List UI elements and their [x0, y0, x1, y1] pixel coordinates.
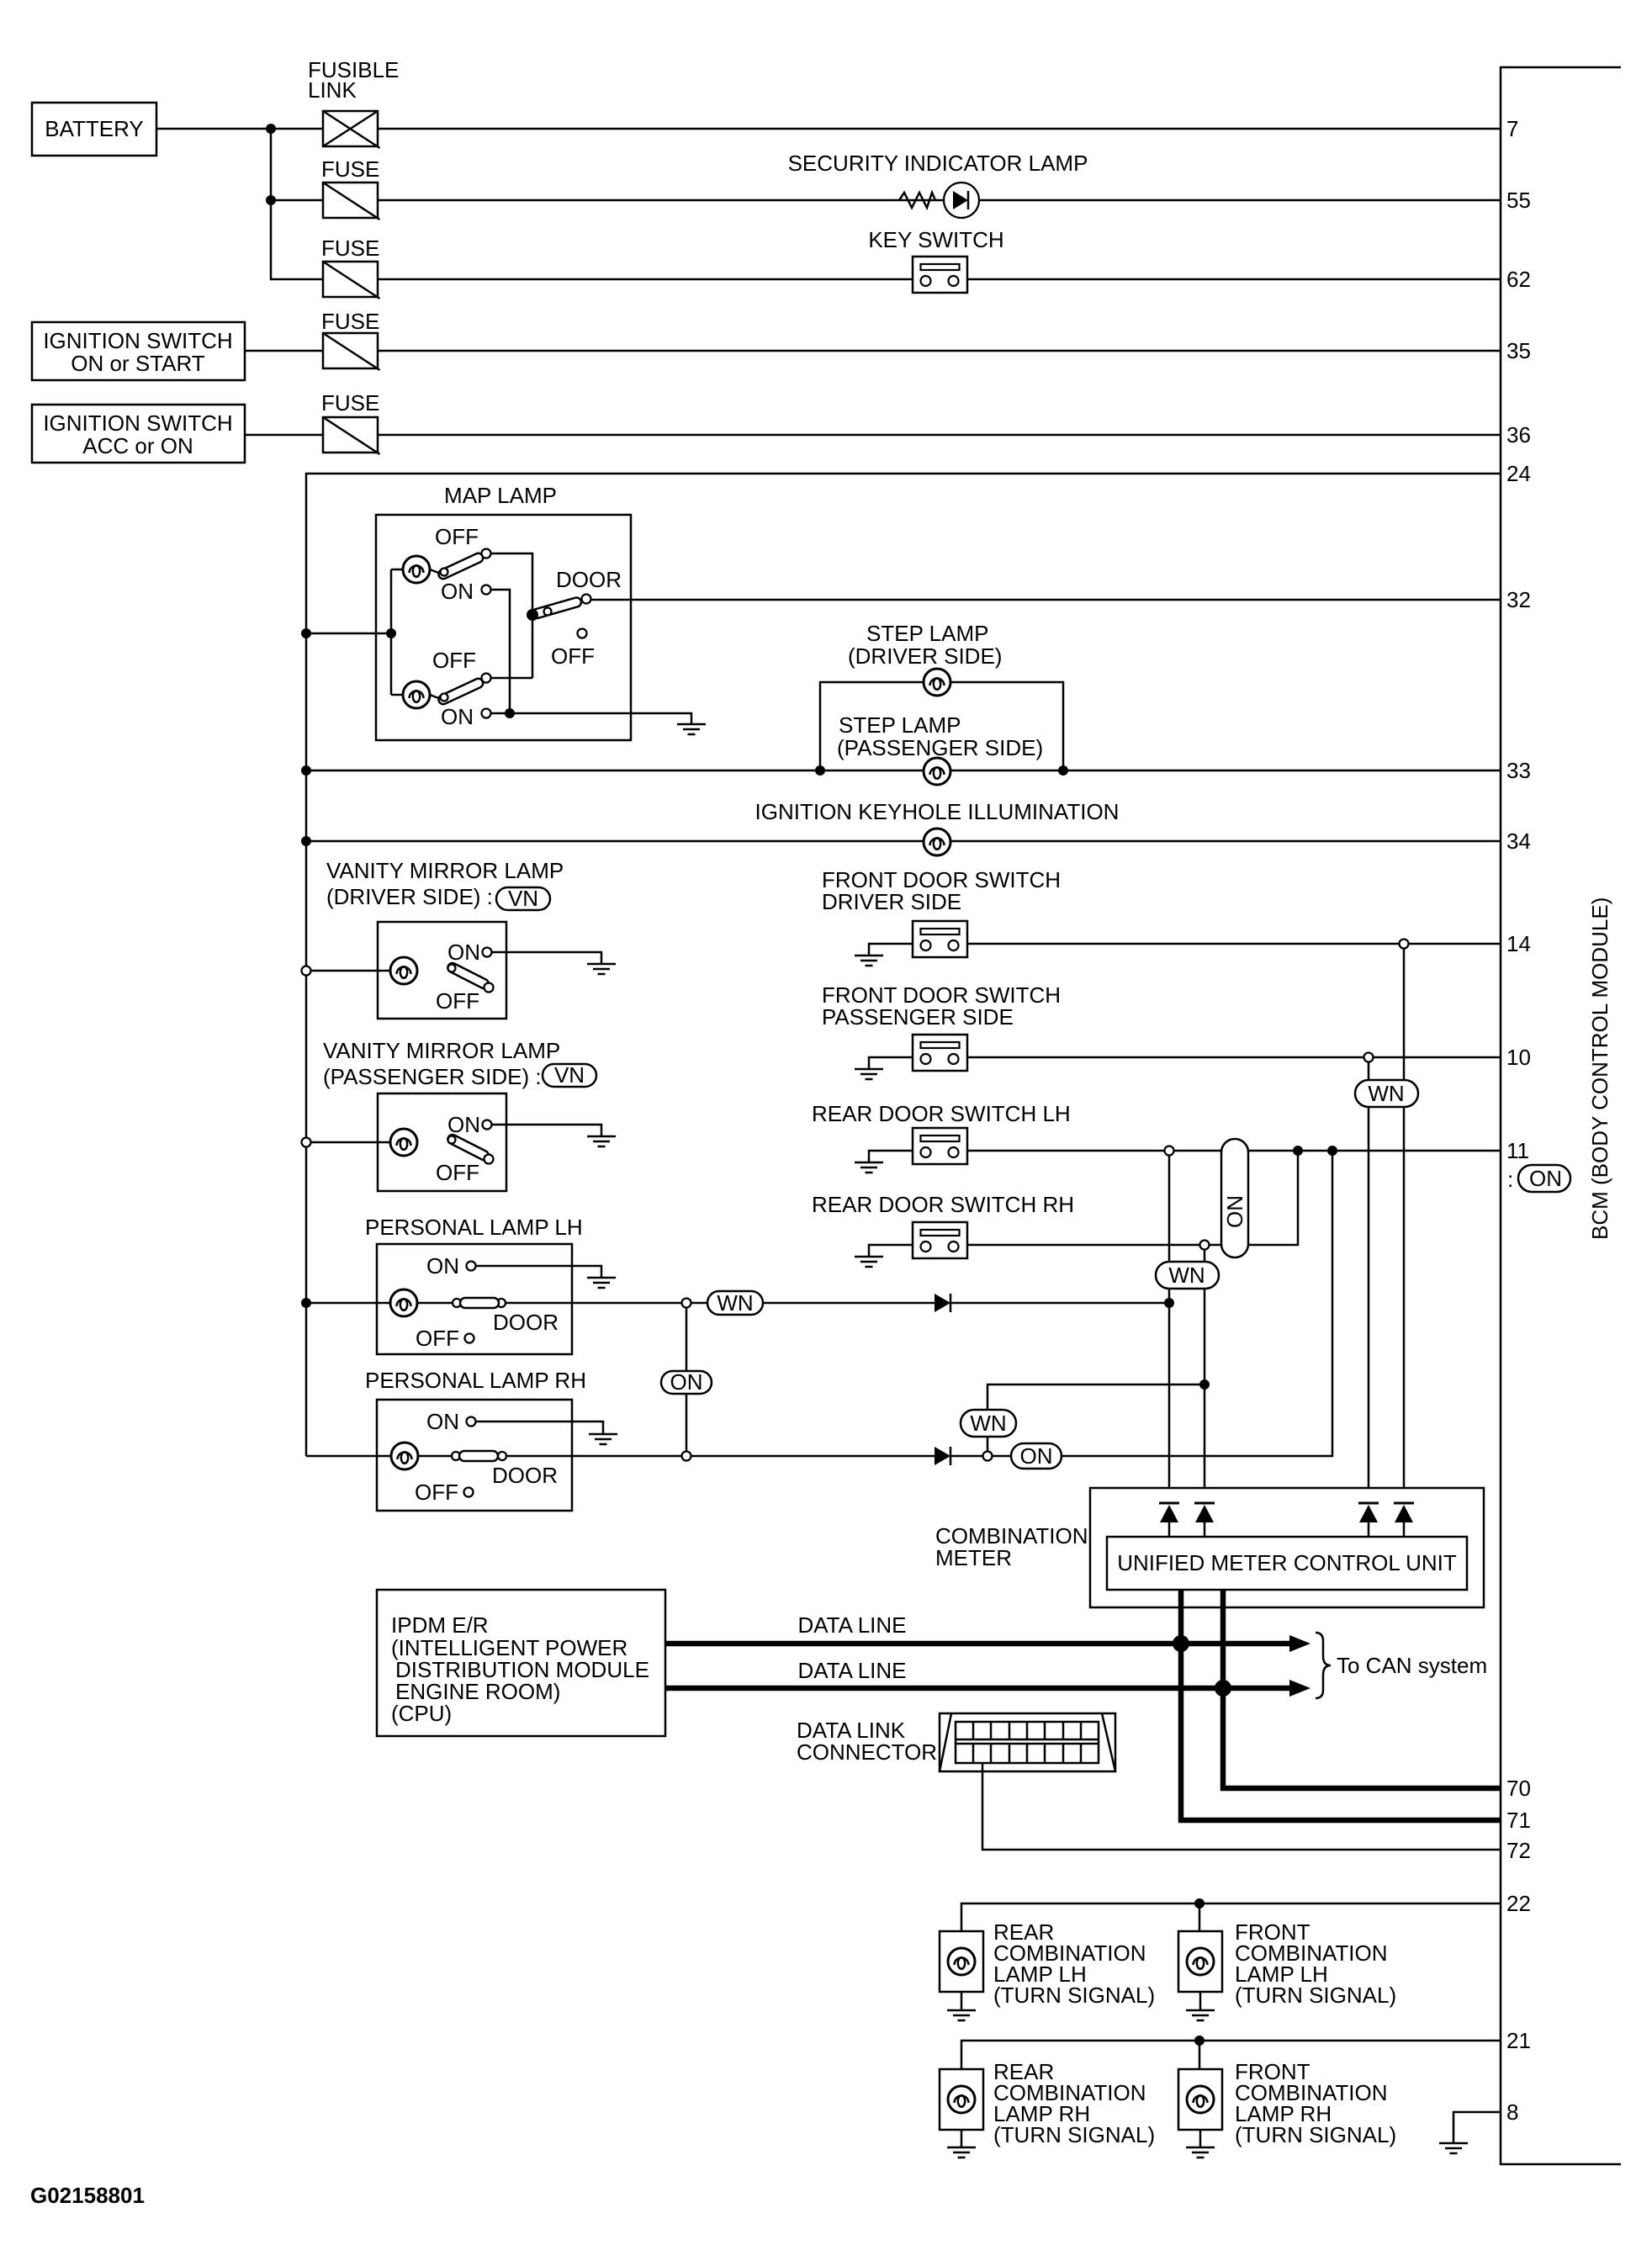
svg-text:(DRIVER SIDE) :: (DRIVER SIDE) : — [326, 884, 493, 909]
fuse F5 label — [321, 390, 379, 416]
ignition switch ACC or ON box — [32, 405, 245, 463]
svg-text:CONNECTOR: CONNECTOR — [797, 1739, 937, 1765]
diode in meter riser 4 — [1394, 1503, 1414, 1537]
pin 10 — [1506, 1045, 1531, 1070]
svg-text:REAR DOOR SWITCH RH: REAR DOOR SWITCH RH — [812, 1192, 1074, 1217]
front door switch driver side — [913, 921, 967, 957]
ignition keyhole illumination bulb — [924, 829, 950, 855]
front door switch passenger side — [913, 1035, 967, 1071]
wire rear lamp RH to ground — [961, 2130, 963, 2147]
BCM (Body Control Module) box — [1501, 67, 1621, 2164]
security indicator lamp label — [788, 151, 1088, 176]
wire pin 34 — [306, 840, 1501, 843]
pin 35 — [1506, 338, 1531, 363]
node CAN junction data line 2 — [1215, 1680, 1231, 1697]
svg-text:7: 7 — [1506, 116, 1518, 141]
vanity mirror lamp passenger box — [378, 1093, 506, 1191]
personal RH OFF contact — [415, 1480, 474, 1505]
node map ground junction — [505, 708, 515, 718]
svg-text:21: 21 — [1506, 2028, 1531, 2053]
personal RH ON contact — [426, 1409, 476, 1434]
svg-text:SECURITY INDICATOR LAMP: SECURITY INDICATOR LAMP — [788, 151, 1088, 176]
harness connector WN on meter risers — [1355, 1080, 1418, 1107]
ground of personal lamp LH — [587, 1278, 616, 1288]
pin 11 — [1506, 1138, 1529, 1163]
svg-text:ON: ON — [447, 1112, 480, 1137]
svg-text:ON: ON — [426, 1253, 459, 1279]
battery box — [32, 103, 156, 156]
wire rear door switch RH to pin 11 wire — [967, 1151, 1298, 1245]
pin 70 — [1506, 1776, 1531, 1801]
map door switch contact — [556, 567, 622, 604]
wire personal LH to diode — [572, 1302, 935, 1305]
svg-text:IGNITION SWITCH: IGNITION SWITCH — [43, 328, 232, 353]
svg-text:METER: METER — [935, 1545, 1012, 1570]
step lamp driver side bulb — [924, 669, 950, 696]
svg-text:ON: ON — [441, 579, 474, 604]
svg-text:OFF: OFF — [436, 988, 479, 1014]
node CAN junction data line 1 — [1173, 1635, 1189, 1652]
node bus to map lamp — [301, 628, 311, 638]
svg-text:70: 70 — [1506, 1776, 1531, 1801]
svg-text:KEY SWITCH: KEY SWITCH — [868, 227, 1003, 252]
node personal RH diode output — [983, 1452, 993, 1461]
ground of vanity driver lamp — [587, 964, 616, 974]
svg-text:IGNITION SWITCH: IGNITION SWITCH — [43, 410, 232, 436]
svg-text:OFF: OFF — [415, 1480, 458, 1505]
ground of personal lamp RH — [589, 1434, 617, 1444]
personal RH door contact slider — [418, 1451, 572, 1461]
ground of map lamp — [677, 724, 706, 734]
fuse F3 — [323, 262, 380, 299]
key switch — [913, 257, 967, 293]
personal LH DOOR label — [493, 1310, 559, 1335]
wire fuse F2 to pin 55 — [378, 199, 1501, 202]
personal lamp LH box — [377, 1244, 572, 1354]
node step loop left — [815, 765, 825, 776]
svg-text:8: 8 — [1506, 2099, 1518, 2125]
harness connector WN on personal LH wire — [707, 1290, 763, 1316]
resistor of security indicator lamp — [899, 193, 935, 208]
fusible link — [323, 111, 380, 148]
map lamp switch 1 lever — [430, 552, 484, 580]
svg-text:(TURN SIGNAL): (TURN SIGNAL) — [993, 1983, 1155, 2008]
harness connector ON on personal RH wire — [1011, 1443, 1062, 1469]
ground of rear door switch LH — [855, 1162, 883, 1173]
wire bus to personal lamp RH — [306, 1455, 391, 1458]
svg-text:ACC or ON: ACC or ON — [82, 433, 193, 458]
wire fuse F3 to key switch — [378, 278, 913, 281]
pin 33 — [1506, 758, 1531, 783]
svg-text:ON: ON — [447, 940, 480, 965]
combination meter box — [1090, 1488, 1484, 1607]
node bus vanity driver tap — [302, 966, 311, 976]
wire pin 33 — [306, 770, 1501, 772]
pin 72 — [1506, 1838, 1531, 1863]
data link connector — [940, 1713, 1115, 1771]
svg-text:G02158801: G02158801 — [30, 2183, 145, 2208]
svg-text:STEP LAMP: STEP LAMP — [839, 712, 961, 738]
svg-text:FUSE: FUSE — [321, 309, 379, 334]
svg-text:IGNITION KEYHOLE ILLUMINATION: IGNITION KEYHOLE ILLUMINATION — [755, 799, 1120, 824]
svg-text:VANITY MIRROR LAMP: VANITY MIRROR LAMP — [326, 858, 564, 883]
wire pin 11 riser to meter — [1168, 1155, 1171, 1504]
svg-text:WN: WN — [970, 1411, 1006, 1436]
node rear RH joins pin 11 — [1293, 1146, 1303, 1156]
ground of vanity passenger lamp — [587, 1136, 616, 1146]
personal LH door contact slider — [417, 1298, 572, 1308]
ignition keyhole illumination label — [755, 799, 1120, 824]
diode in meter riser 2 — [1194, 1503, 1215, 1537]
svg-text:DOOR: DOOR — [493, 1310, 559, 1335]
fuse F4 — [323, 333, 380, 370]
front combination lamp RH label — [1235, 2059, 1396, 2147]
node bus pin 33 — [301, 765, 311, 776]
personal LH ON contact — [426, 1253, 476, 1279]
svg-text:DATA LINE: DATA LINE — [797, 1658, 906, 1683]
svg-text:33: 33 — [1506, 758, 1531, 783]
wire ignition 1 to fuse F4 — [245, 350, 323, 352]
fuse F2 — [323, 183, 380, 220]
svg-text:OFF: OFF — [436, 1160, 479, 1185]
wire step lamp loop — [820, 682, 1063, 770]
map door switch lever — [531, 596, 582, 619]
vanity driver bulb — [390, 957, 417, 984]
svg-text:ON: ON — [426, 1409, 459, 1434]
map lamp bulb 2 — [403, 681, 430, 708]
wire diode LH to junction — [950, 1302, 1169, 1305]
map lamp box — [376, 515, 631, 740]
svg-text:10: 10 — [1506, 1045, 1531, 1070]
vanity driver switch lever — [447, 961, 494, 992]
personal lamp RH label — [365, 1368, 586, 1393]
pin 22 — [1506, 1891, 1531, 1916]
wire ignition 2 to fuse F5 — [245, 434, 323, 437]
ground of rear lamp LH — [947, 2010, 976, 2020]
rear combination lamp RH label — [993, 2059, 1155, 2147]
ground of front door switch driver — [855, 956, 883, 966]
svg-text:71: 71 — [1506, 1808, 1531, 1833]
svg-text:ON: ON — [1529, 1166, 1562, 1191]
node RH wire tap of vertical link — [682, 1452, 691, 1461]
wire vanity passenger to ground — [492, 1125, 601, 1136]
wire pin 21 turn signal RH — [961, 2041, 1501, 2069]
front door switch driver side label — [822, 867, 1061, 914]
wire rear lamp LH to ground — [961, 1992, 963, 2010]
svg-text:62: 62 — [1506, 267, 1531, 292]
pin 62 — [1506, 267, 1531, 292]
svg-text:DOOR: DOOR — [492, 1463, 558, 1488]
pin 7 — [1506, 116, 1518, 141]
node pin 11 tap — [1165, 1146, 1174, 1156]
harness connector ON on vertical link — [661, 1369, 712, 1395]
svg-text:DATA LINE: DATA LINE — [797, 1612, 906, 1638]
node LH diode joins meter riser — [1164, 1298, 1174, 1308]
wire CAN data line 1 — [665, 1635, 1310, 1652]
svg-text:11: 11 — [1506, 1138, 1529, 1163]
data line label 2 — [797, 1658, 906, 1683]
wire rear RH riser to meter — [1204, 1249, 1206, 1504]
brace to CAN system — [1316, 1633, 1487, 1698]
wire bus to personal lamp LH — [306, 1302, 390, 1305]
map lamp switch 2 lever — [430, 677, 484, 706]
svg-text:ON or START: ON or START — [71, 351, 205, 376]
node bus pin 34 — [301, 836, 311, 846]
pin 32 — [1506, 587, 1531, 612]
map switch 1 ON contact — [441, 579, 491, 604]
node pin 10 tap — [1364, 1053, 1374, 1062]
map switch 2 ON contact — [441, 704, 491, 729]
pin 11 ON condition label — [1507, 1165, 1570, 1192]
svg-text:STEP LAMP: STEP LAMP — [866, 621, 988, 646]
wire fusible link to pin 7 — [378, 128, 1501, 130]
rear door switch LH label — [812, 1101, 1071, 1126]
wire ground to front door switch driver — [869, 944, 913, 956]
node bus vanity passenger tap — [302, 1138, 311, 1147]
svg-text:LINK: LINK — [308, 77, 357, 103]
vanity driver OFF label — [436, 988, 479, 1014]
svg-text:(TURN SIGNAL): (TURN SIGNAL) — [1235, 1983, 1396, 2008]
wire rear door switch LH to pin 11 — [967, 1150, 1501, 1152]
node personal RH joins pin 11 — [1327, 1146, 1337, 1156]
pin 14 — [1506, 931, 1531, 956]
pin 21 — [1506, 2028, 1531, 2053]
node battery junction 1 — [266, 124, 276, 134]
fuse F2 label — [321, 156, 379, 182]
IPDM E/R box — [377, 1590, 665, 1736]
ground of rear door switch RH — [855, 1257, 883, 1267]
ground of front lamp LH — [1186, 2010, 1215, 2020]
svg-text:IPDM E/R: IPDM E/R — [391, 1612, 489, 1638]
wire pin 14 riser to meter — [1403, 948, 1406, 1504]
svg-text:PERSONAL LAMP LH: PERSONAL LAMP LH — [365, 1215, 583, 1240]
wire diode RH to pin 11 riser — [950, 1151, 1332, 1456]
fusible link label — [308, 57, 399, 103]
rear combination lamp LH label — [993, 1919, 1155, 2008]
fuse F4 label — [321, 309, 379, 334]
wire bus to vanity passenger lamp — [310, 1141, 390, 1144]
svg-text:22: 22 — [1506, 1891, 1531, 1916]
svg-text:24: 24 — [1506, 461, 1531, 486]
wire key switch to pin 62 — [967, 278, 1501, 281]
pin 55 — [1506, 188, 1531, 213]
svg-text:To CAN system: To CAN system — [1337, 1653, 1487, 1678]
wire front lamp LH to ground — [1199, 1992, 1202, 2010]
personal lamp LH label — [365, 1215, 583, 1240]
node WN branch joins meter riser — [1199, 1379, 1210, 1390]
pin 24 — [1506, 461, 1531, 486]
vanity driver ON contact — [447, 940, 492, 965]
wire vertical link LH to RH lamp wire — [686, 1308, 688, 1452]
front combination lamp LH — [1178, 1931, 1222, 1992]
vanity mirror lamp driver box — [378, 922, 506, 1019]
diode in meter riser 3 — [1358, 1503, 1379, 1537]
node rear RH tap — [1200, 1241, 1210, 1250]
pin 34 — [1506, 829, 1531, 854]
rear door switch RH — [913, 1222, 967, 1258]
fuse F3 label — [321, 236, 379, 261]
svg-text:MAP LAMP: MAP LAMP — [444, 483, 557, 508]
svg-text:VN: VN — [554, 1062, 585, 1088]
vanity mirror lamp passenger side label — [323, 1038, 596, 1089]
svg-text:14: 14 — [1506, 931, 1531, 956]
diode in meter riser 1 — [1159, 1503, 1179, 1537]
svg-text:(PASSENGER SIDE) :: (PASSENGER SIDE) : — [323, 1064, 542, 1089]
vanity passenger switch lever — [447, 1133, 494, 1163]
svg-text:72: 72 — [1506, 1838, 1531, 1863]
rear door switch LH — [913, 1128, 967, 1164]
wire fuse F4 to pin 35 — [378, 350, 1501, 352]
step lamp passenger side label — [837, 712, 1043, 760]
wire personal LH ON contact to ground — [476, 1266, 601, 1278]
svg-text:32: 32 — [1506, 587, 1531, 612]
wire map door switch to pin 32 — [590, 599, 1501, 601]
svg-text:(PASSENGER SIDE): (PASSENGER SIDE) — [837, 735, 1043, 760]
personal LH OFF contact — [416, 1326, 474, 1351]
front combination lamp RH — [1178, 2069, 1222, 2130]
personal lamp RH box — [377, 1400, 572, 1511]
svg-text:55: 55 — [1506, 188, 1531, 213]
data link connector label — [797, 1718, 937, 1765]
wire bus to map lamp — [306, 569, 403, 695]
pin 71 — [1506, 1808, 1531, 1833]
svg-text:PASSENGER SIDE: PASSENGER SIDE — [822, 1004, 1014, 1030]
map lamp bulb 1 — [403, 556, 430, 583]
svg-text:FUSE: FUSE — [321, 236, 379, 261]
svg-text:VANITY MIRROR LAMP: VANITY MIRROR LAMP — [323, 1038, 560, 1063]
ignition switch ON or START box — [32, 322, 245, 380]
node battery junction 2 — [266, 195, 276, 205]
svg-text:OFF: OFF — [416, 1326, 459, 1351]
combination meter label — [935, 1523, 1088, 1570]
wire map lamps ground run — [510, 713, 691, 724]
wire front door switch passenger to pin 10 — [967, 1056, 1501, 1059]
unified meter control unit box — [1107, 1537, 1467, 1590]
svg-text:BCM (BODY CONTROL MODULE): BCM (BODY CONTROL MODULE) — [1587, 897, 1612, 1240]
front combination lamp LH label — [1235, 1919, 1396, 2008]
node bus personal LH tap — [301, 1298, 311, 1308]
node personal LH tap for RH feed — [682, 1299, 691, 1308]
wire front door switch driver to pin 14 — [967, 943, 1501, 945]
wire map switch 1 contacts — [490, 553, 532, 713]
svg-text:36: 36 — [1506, 422, 1531, 447]
map lamp label — [444, 483, 557, 508]
wire CAN data line 2 — [665, 1680, 1310, 1697]
personal LH bulb — [390, 1289, 417, 1316]
svg-text:35: 35 — [1506, 338, 1531, 363]
figure number — [30, 2183, 145, 2208]
svg-text:UNIFIED METER CONTROL UNIT: UNIFIED METER CONTROL UNIT — [1117, 1550, 1457, 1575]
step lamp passenger side bulb — [924, 758, 950, 785]
svg-text:WN: WN — [1168, 1263, 1205, 1288]
svg-text:OFF: OFF — [551, 643, 595, 669]
vanity passenger bulb — [390, 1129, 417, 1156]
personal RH bulb — [391, 1443, 418, 1469]
personal RH DOOR label — [492, 1463, 558, 1488]
fuse F5 — [323, 417, 380, 454]
svg-text:REAR DOOR SWITCH LH: REAR DOOR SWITCH LH — [812, 1101, 1071, 1126]
wire data link connector to pin 72 — [982, 1763, 1501, 1850]
ground of rear lamp RH — [947, 2147, 976, 2157]
ground at pin 8 — [1439, 2143, 1468, 2153]
svg-text:WN: WN — [1368, 1081, 1404, 1106]
diode lamp of security indicator — [944, 183, 979, 218]
harness connector WN on meter risers 2 — [1156, 1262, 1219, 1289]
harness connector WN on personal RH branch — [961, 1410, 1016, 1437]
wire pin 24 and interior lamp supply bus — [306, 474, 1501, 1456]
svg-text:PERSONAL LAMP RH: PERSONAL LAMP RH — [365, 1368, 586, 1393]
wire ground to rear door switch RH — [869, 1245, 913, 1257]
svg-text:DOOR: DOOR — [556, 567, 622, 592]
rear door switch RH label — [812, 1192, 1074, 1217]
wire personal RH to diode — [572, 1455, 935, 1458]
node map lamp branch — [386, 628, 396, 638]
svg-text:ON: ON — [1020, 1443, 1053, 1469]
svg-text:ON: ON — [441, 704, 474, 729]
map switch 1 OFF contact — [435, 524, 491, 559]
rear combination lamp LH — [940, 1931, 983, 1992]
wire bus to vanity driver lamp — [310, 970, 390, 972]
data line label 1 — [797, 1612, 906, 1638]
wire pin 22 turn signal LH — [961, 1903, 1501, 1931]
ground of front lamp RH — [1186, 2147, 1215, 2157]
step lamp driver side label — [848, 621, 1002, 669]
wire front lamp RH to ground — [1199, 2130, 1202, 2147]
ground of front door switch passenger — [855, 1069, 883, 1079]
wire meter CAN riser to pin 70 — [1223, 1590, 1501, 1788]
vanity passenger OFF label — [436, 1160, 479, 1185]
svg-text:34: 34 — [1506, 829, 1531, 854]
front door switch passenger side label — [822, 982, 1061, 1030]
svg-text::: : — [1507, 1167, 1513, 1192]
wire pin 10 riser to meter — [1368, 1062, 1370, 1504]
svg-text:(DRIVER SIDE): (DRIVER SIDE) — [848, 643, 1002, 669]
svg-text:OFF: OFF — [432, 648, 476, 673]
wire ground to front door switch passenger — [869, 1057, 913, 1069]
pin 36 — [1506, 422, 1531, 447]
svg-text:(CPU): (CPU) — [391, 1701, 452, 1726]
svg-text:ON: ON — [670, 1369, 703, 1395]
pin 8 — [1506, 2099, 1518, 2125]
wire ground to rear door switch LH — [869, 1151, 913, 1162]
svg-text:OFF: OFF — [435, 524, 479, 549]
map door switch OFF position — [551, 629, 595, 670]
svg-text:(TURN SIGNAL): (TURN SIGNAL) — [993, 2122, 1155, 2147]
node map door switch pivot — [527, 609, 538, 621]
map switch 2 OFF contact — [432, 648, 491, 683]
svg-text:DRIVER SIDE: DRIVER SIDE — [822, 889, 961, 914]
rear combination lamp RH — [940, 2069, 983, 2130]
svg-text:(TURN SIGNAL): (TURN SIGNAL) — [1235, 2122, 1396, 2147]
wire battery to junction — [156, 128, 323, 130]
diode of personal lamp LH — [935, 1294, 950, 1312]
wire pin 8 to ground — [1453, 2112, 1501, 2143]
svg-text:FUSE: FUSE — [321, 390, 379, 416]
key switch label — [868, 227, 1003, 252]
node step loop right — [1058, 765, 1068, 776]
wire fuse F5 to pin 36 — [378, 434, 1501, 437]
svg-text:FUSE: FUSE — [321, 156, 379, 182]
wire battery feed bus — [271, 129, 323, 279]
harness connector ON capsule on rear RH link — [1221, 1139, 1248, 1257]
node front lamp RH tap — [1194, 2036, 1205, 2046]
wire WN branch of personal RH — [987, 1384, 1205, 1456]
BCM vertical name label — [1587, 897, 1612, 1240]
wire meter CAN riser to pin 71 — [1181, 1590, 1501, 1820]
node pin 14 tap — [1400, 940, 1409, 949]
svg-text:ON: ON — [1222, 1195, 1247, 1228]
svg-text:WN: WN — [717, 1290, 753, 1316]
